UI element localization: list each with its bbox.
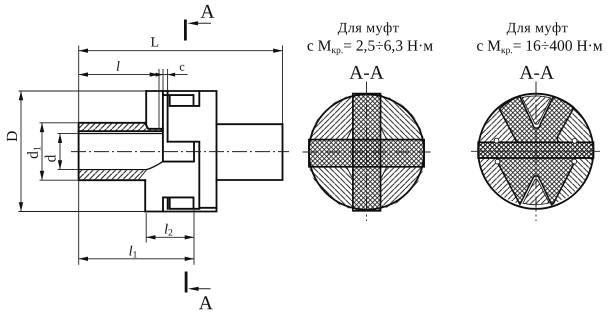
jaw lobe top-right <box>557 108 592 143</box>
flange outline <box>145 91 216 212</box>
caption text block 1 line 2 <box>308 40 433 55</box>
jaw in top V-notch <box>522 96 551 124</box>
label l <box>117 61 120 71</box>
centerline vertical <box>535 82 537 222</box>
jaw top-right <box>381 95 425 140</box>
d arrows <box>58 134 62 143</box>
jaw lobe bottom-left <box>479 158 520 204</box>
ext line shaft right <box>282 46 284 124</box>
label D <box>7 131 17 141</box>
ext lines D <box>19 91 147 212</box>
dim d line <box>59 134 61 170</box>
dim c arrows lines <box>153 74 188 76</box>
caption text block 1 line 1 <box>338 22 399 35</box>
jaw bottom-right <box>381 167 425 210</box>
label d <box>45 155 56 162</box>
flange left face bottom <box>144 180 146 211</box>
gap face right coupling <box>167 91 169 142</box>
star horizontal bar <box>478 142 593 158</box>
section mark bottom <box>186 272 211 293</box>
centerline horizontal <box>303 151 431 153</box>
ext line hub left <box>78 46 80 265</box>
jaw top-left <box>309 95 353 140</box>
hatched band top (hub wall section) <box>79 124 163 181</box>
hatched band bottom <box>79 170 146 179</box>
gap face left coupling <box>162 91 164 162</box>
D arrows <box>19 91 23 100</box>
chamfer hub-to-flange <box>145 123 163 129</box>
centerline horizontal <box>471 150 600 152</box>
circle outline <box>309 94 424 209</box>
c arrows <box>156 73 164 77</box>
band taper diagonal <box>138 170 147 180</box>
caption text block 2 line 1 <box>507 22 568 35</box>
dim l2 line <box>146 236 194 238</box>
dim l1 line <box>79 258 194 260</box>
dim L line <box>79 50 283 52</box>
ext line l2/l1 right <box>193 210 195 265</box>
l1 arrows <box>79 257 88 261</box>
keyway slot line <box>79 130 163 132</box>
l arrows <box>79 72 88 76</box>
bore fillet curve <box>146 162 163 170</box>
dim D line <box>20 91 22 212</box>
circle outline <box>478 94 593 209</box>
bore top line <box>79 133 163 135</box>
ext lines d <box>58 134 79 170</box>
bottom slot rect <box>163 197 199 211</box>
label l2 <box>165 224 172 236</box>
jaw bottom-left <box>309 167 353 210</box>
label L <box>151 37 158 46</box>
right shaft <box>217 124 283 180</box>
section mark top <box>185 20 211 41</box>
jaw in bottom V-notch <box>523 179 549 204</box>
ext lines c <box>163 69 168 91</box>
center line horizontal <box>71 151 289 153</box>
jaw lobe bottom-right <box>554 158 594 204</box>
star horizontal bar <box>309 140 424 167</box>
middle jaw rect <box>163 142 217 208</box>
hub outline <box>79 123 146 180</box>
white clearance notches <box>494 138 577 164</box>
ext line l2 left <box>145 213 147 243</box>
flange left face top <box>145 91 147 125</box>
caption text block 2 line 2 <box>477 40 602 55</box>
l2 arrows <box>146 235 155 239</box>
label d1 <box>27 147 40 159</box>
dim l line <box>79 74 159 76</box>
top slot rect <box>163 91 199 106</box>
star vertical bar <box>353 94 381 211</box>
jaw lobe top-left <box>479 109 519 142</box>
ext lines d1 <box>40 123 78 180</box>
dim d1 line <box>41 123 43 180</box>
section letter A top <box>201 5 215 18</box>
caption text block 1 A-A <box>349 66 383 79</box>
chamfer lines <box>347 127 387 179</box>
section letter A bottom <box>199 296 213 309</box>
centerline vertical <box>366 82 368 222</box>
ext line l right <box>158 69 160 129</box>
L arrows <box>79 49 88 53</box>
arrowheads <box>19 49 283 262</box>
caption text block 2 A-A <box>520 66 554 79</box>
d1 arrows <box>40 123 44 132</box>
label l1 <box>129 246 136 258</box>
bore bottom line <box>79 169 146 171</box>
label c <box>180 65 185 71</box>
star body (bar + four diagonal arms, cross-hatched) <box>478 96 593 205</box>
